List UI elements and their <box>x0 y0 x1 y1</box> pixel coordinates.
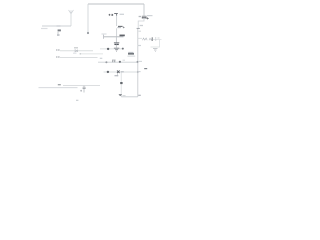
label ANT <box>41 28 48 30</box>
junction dot on right bus <box>137 61 139 63</box>
pin label 5 <box>144 68 147 70</box>
transistor Q1 label <box>100 57 103 59</box>
capacitor C7 body <box>120 82 122 84</box>
wire right drop <box>143 4 145 16</box>
wire to speaker <box>138 37 142 39</box>
label det <box>73 52 77 54</box>
capacitor C2 <box>112 60 116 62</box>
label smudge <box>139 30 142 32</box>
node label D <box>56 49 59 51</box>
earphone J1 <box>83 86 86 93</box>
wire to mid rail <box>116 28 118 37</box>
junction dot on bus <box>137 71 139 73</box>
wire darker segment at coil tap <box>57 25 61 27</box>
node D dot <box>105 61 107 63</box>
wire speaker right lead <box>153 39 162 41</box>
wire jog from C5 to right bus <box>138 18 144 28</box>
wire into node C <box>100 48 123 50</box>
label smudge <box>123 95 126 97</box>
capacitor C6 <box>156 37 160 41</box>
label 9V <box>102 33 107 35</box>
wire right bus <box>137 29 139 97</box>
antenna ANT1 <box>69 10 74 26</box>
switch S1 label <box>140 25 143 27</box>
capacitor C3 top lead <box>115 37 117 43</box>
value label 10n <box>115 75 119 77</box>
wire detector left <box>60 50 75 52</box>
wire base line <box>60 57 98 59</box>
wire lower chain <box>120 73 122 97</box>
wire antenna lead <box>42 25 71 27</box>
battery BT1 label <box>120 13 124 15</box>
capacitor C3 bottom lead <box>115 45 117 48</box>
wire top rail <box>88 3 144 5</box>
label J1 <box>76 99 78 101</box>
speaker SP1 <box>143 37 153 41</box>
label smudge <box>139 60 142 62</box>
node dot <box>80 53 82 55</box>
capacitor C5 label <box>139 16 141 18</box>
label smudge <box>123 59 126 61</box>
resistor R2 label <box>128 53 134 55</box>
label smudge <box>139 71 141 73</box>
ground right <box>153 49 158 52</box>
wire aux <box>80 53 103 55</box>
wire R2 stub <box>128 55 136 57</box>
wire mid rail <box>104 36 124 38</box>
resistor R2 value label <box>128 51 133 53</box>
wire collector rail <box>104 71 138 73</box>
junction dot <box>119 61 121 63</box>
speaker SP1 label <box>138 45 142 47</box>
node B dot <box>87 32 89 34</box>
resistor R1 label <box>120 34 125 36</box>
capacitor C5 (electrolytic) <box>142 16 149 19</box>
capacitor C1 stub <box>117 73 119 76</box>
coil L1 <box>57 32 59 34</box>
power terminal label +9V <box>109 14 113 16</box>
node label B <box>56 56 59 58</box>
capacitor C1 label <box>121 71 124 73</box>
capacitor C3 <box>114 43 119 45</box>
label value <box>57 34 60 36</box>
diode D1 <box>75 50 78 52</box>
wire earphone top <box>63 85 100 87</box>
wire from terminal <box>116 16 118 27</box>
terminal tick <box>58 84 61 86</box>
wire emitter rail <box>98 61 138 63</box>
coil L1 label <box>58 29 61 31</box>
wire earphone bottom <box>39 87 78 89</box>
capacitor C4 (electrolytic) <box>117 26 124 28</box>
wire detector right <box>78 50 94 52</box>
diode D1 label <box>74 47 78 49</box>
wire return loop <box>151 40 160 48</box>
junction dot <box>122 48 124 50</box>
polarity label <box>80 90 82 92</box>
terminal tick <box>103 35 105 39</box>
node C dot <box>107 48 109 50</box>
wire bottom link <box>121 96 138 98</box>
label 0V <box>138 94 141 96</box>
capacitor C5 value label <box>147 15 153 17</box>
switch S1 contact bar <box>137 27 140 29</box>
node E dot <box>107 71 109 73</box>
ground center <box>114 48 119 51</box>
wire left drop <box>87 4 89 32</box>
resistor R3 <box>119 94 122 95</box>
crossing X <box>117 71 120 74</box>
power terminal bar <box>114 14 118 17</box>
